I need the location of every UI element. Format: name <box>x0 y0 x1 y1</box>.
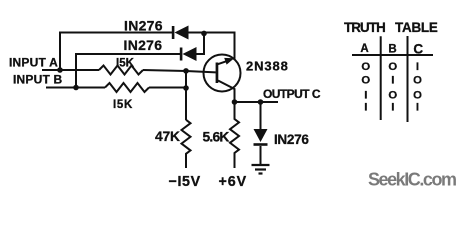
junction dot output diode node <box>258 99 264 105</box>
svg-text:I: I <box>364 90 367 102</box>
svg-text:I5K: I5K <box>113 99 133 111</box>
svg-text:O: O <box>388 61 397 73</box>
wire input A up to diode D1 <box>60 33 172 71</box>
wire input B up to diode D2 <box>76 54 180 88</box>
wire input B line to node <box>149 87 186 89</box>
svg-text:INPUT A: INPUT A <box>9 56 58 70</box>
diode D1 IN276 triangle <box>175 26 189 40</box>
svg-text:I: I <box>416 102 419 114</box>
svg-text:I: I <box>416 61 419 73</box>
diode D2 IN276 cathode bar <box>180 48 183 61</box>
svg-text:47K: 47K <box>155 129 180 144</box>
wire input A lead-in <box>42 69 99 71</box>
resistor R2 15K (input B) <box>105 83 149 92</box>
truth table header rule <box>352 54 433 56</box>
svg-text:I5K: I5K <box>116 57 135 69</box>
wire output line <box>235 101 279 103</box>
svg-text:INPUT B: INPUT B <box>13 73 63 87</box>
junction dot output left <box>232 99 238 105</box>
diode D3 IN276 cathode bar <box>254 143 268 146</box>
resistor R3 47K <box>182 120 191 168</box>
junction dot top node <box>201 31 207 37</box>
truth table column A values <box>361 61 370 114</box>
svg-text:+6V: +6V <box>219 174 248 190</box>
junction dot base node upper <box>183 68 189 74</box>
junction dot node A <box>57 67 63 73</box>
svg-text:O: O <box>361 61 370 73</box>
junction dot base node lower <box>183 85 189 91</box>
diode D2 IN276 triangle <box>183 47 197 61</box>
wire input B lead-in <box>46 87 105 89</box>
resistor R1 15K (input A) <box>99 66 143 75</box>
svg-text:O: O <box>388 90 397 102</box>
transistor Q1 base bar <box>216 63 219 84</box>
svg-text:TABLE: TABLE <box>395 20 438 35</box>
svg-text:I: I <box>391 102 394 114</box>
svg-text:A: A <box>360 43 368 55</box>
svg-text:B: B <box>388 44 396 56</box>
svg-text:5.6K: 5.6K <box>203 129 230 144</box>
svg-text:SeekIC.com: SeekIC.com <box>368 170 456 190</box>
svg-text:O: O <box>361 75 370 87</box>
truth table column C values <box>413 61 422 114</box>
svg-text:I: I <box>364 102 367 114</box>
resistor R4 5.6K <box>230 102 239 168</box>
diode D3 IN276 triangle <box>254 129 268 142</box>
svg-text:IN276: IN276 <box>124 18 163 34</box>
junction dot node B <box>73 85 79 91</box>
truth table column separator 2 <box>407 36 409 122</box>
svg-text:−I5V: −I5V <box>169 174 201 190</box>
svg-text:C: C <box>413 42 423 57</box>
wire D3 to ground <box>260 146 262 165</box>
transistor Q1 collector lead <box>218 81 235 103</box>
transistor Q1 2N388 circle <box>204 55 241 92</box>
wire output node down to diode D3 <box>260 102 262 129</box>
wire base node down to R3 <box>185 71 187 120</box>
svg-text:I: I <box>391 75 394 87</box>
ground symbol <box>252 165 270 174</box>
svg-text:IN276: IN276 <box>274 132 309 147</box>
transistor Q1 emitter lead with arrow <box>218 61 228 64</box>
svg-text:IN276: IN276 <box>124 37 163 53</box>
wire input A line to base node <box>143 70 216 72</box>
wire D1 to corner down to transistor emitter <box>189 33 235 60</box>
diode D1 IN276 cathode bar <box>172 26 175 39</box>
svg-text:OUTPUT C: OUTPUT C <box>263 87 321 101</box>
svg-text:O: O <box>413 75 422 87</box>
truth table column B values <box>388 61 397 114</box>
truth table column separator 1 <box>380 36 382 120</box>
svg-text:O: O <box>413 90 422 102</box>
svg-text:TRUTH: TRUTH <box>344 20 385 35</box>
wire D2 up to top node <box>197 33 205 54</box>
svg-text:2N388: 2N388 <box>246 59 289 74</box>
